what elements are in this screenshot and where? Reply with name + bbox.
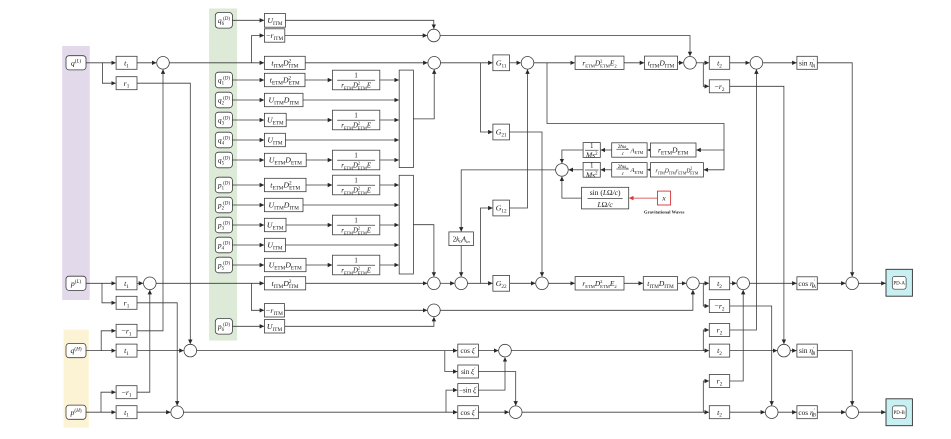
- block 1/Ms^2 row1: [583, 142, 600, 160]
- block G11: [493, 55, 510, 71]
- wire junction N2 to t_ITM D2_ITM lower: [156, 282, 264, 284]
- wire pL branch to -r_ITM lower: [251, 283, 263, 310]
- gain t1 (pH): [116, 406, 137, 419]
- block 1/Ms^2 row2: [583, 162, 600, 180]
- wire A_ETM to 1/Ms2 row2: [601, 169, 612, 171]
- wire q4 to stage box: [232, 139, 263, 141]
- svg-text:1: 1: [354, 152, 357, 159]
- wire q^(L) branch to r1: [102, 63, 115, 83]
- junction N8 (pL + 2k0Ain): [455, 277, 468, 290]
- input p^(H): [66, 405, 86, 419]
- block (2hw0/c)A_ETM row1: [612, 143, 647, 157]
- block sinc(LOmega/c): [582, 187, 629, 209]
- svg-text:Ms2: Ms2: [585, 171, 598, 180]
- input q2^(D): [215, 92, 232, 108]
- block 1/(r_ETM D2_ETM E) row y=225: [333, 215, 380, 235]
- wire junction N1 to t_ITM D2_ITM: [169, 62, 263, 64]
- wire -r2 top down to junction N19: [730, 86, 784, 343]
- wire t2 to junction N20: [730, 411, 765, 413]
- wire t2 to junction N17: [730, 62, 750, 64]
- input q5^(D): [215, 152, 232, 168]
- block U_ITM D_ITM (p2): [264, 198, 303, 211]
- wire r2(381) up to junction N18: [730, 290, 744, 381]
- wire junction N21 to PD-A: [859, 282, 886, 284]
- wire q1 to stage box: [232, 79, 263, 81]
- junction N22 (PD-B sum): [846, 406, 859, 419]
- wire fraction to collector row y=225: [380, 224, 399, 226]
- svg-text:1: 1: [354, 257, 357, 264]
- wire junction N9 to junction N16: [440, 290, 693, 310]
- wire branch to r2(381): [703, 381, 708, 412]
- wire branch to -r2 lower: [703, 283, 708, 306]
- svg-text:sin ξ′: sin ξ′: [461, 367, 476, 376]
- block 1/(r_ETM D2_ETM E) row y=80: [333, 70, 380, 90]
- wire G12 up to junction N10: [510, 70, 528, 208]
- gain r1 (qL): [116, 77, 137, 90]
- block t_ITM D_ITM (top): [645, 56, 678, 69]
- wire junction N7 to junction N8: [440, 282, 454, 284]
- svg-text:1: 1: [590, 142, 594, 150]
- svg-text:LΩ/c: LΩ/c: [597, 200, 614, 209]
- wire r1(pL) down to junction N4: [137, 303, 177, 406]
- wire p4 to stage box: [232, 244, 263, 246]
- input p2^(D): [215, 197, 232, 213]
- wire r1(qL) down to junction N3: [137, 83, 190, 344]
- input q^(L): [66, 56, 86, 70]
- junction N16 (cavity out lower): [687, 277, 700, 290]
- wire t2 to junction N18: [730, 282, 737, 284]
- wire branch to G21: [481, 63, 493, 132]
- input p6^(D): [215, 319, 232, 335]
- wire 1/Ms2 row2 to mech junction: [569, 169, 583, 171]
- wire -sin xi up to junction N13: [478, 358, 505, 391]
- wire -r1(qH) up to junction N1: [137, 70, 163, 331]
- wire branch to -r2 top: [703, 63, 708, 87]
- gain -r2 (lower): [709, 300, 729, 313]
- collector matrix block lower: [399, 175, 413, 274]
- wire stage box to fraction row y=160: [306, 159, 332, 161]
- input q3^(D): [215, 112, 232, 128]
- block -r_ITM (top): [264, 29, 284, 42]
- gain -r1 (pH): [116, 386, 137, 399]
- collector matrix block upper: [399, 70, 413, 168]
- block U_ITM (p6): [264, 320, 284, 333]
- input p4^(D): [215, 237, 232, 253]
- junction N11 (G22+G21): [536, 277, 549, 290]
- svg-text:Ms2: Ms2: [585, 151, 598, 160]
- junction N17 (t2+r2 top): [750, 57, 763, 70]
- gain t1 (qL): [116, 56, 137, 69]
- wire cos eta A to junction N21: [817, 282, 845, 284]
- wire p^(H) to t1: [86, 411, 116, 413]
- block cos xi (pH): [458, 406, 479, 419]
- svg-text:Gravitational Waves: Gravitational Waves: [644, 210, 685, 215]
- band detuned sidebands (green): [209, 9, 237, 341]
- wire t1 to junction N3: [137, 350, 183, 352]
- wire t1 to junction N4: [137, 411, 170, 413]
- junction N6 (qL + collector1): [428, 57, 441, 70]
- wire p5 to stage box: [232, 264, 263, 266]
- wire t_ITM D_ITM to junction N15: [678, 62, 684, 64]
- wire fraction to collector row y=160: [380, 159, 399, 161]
- wire junction N15 to t2: [696, 62, 708, 64]
- svg-text:PD-B: PD-B: [893, 411, 905, 416]
- wire junction N22 to PD-B: [859, 411, 886, 413]
- wire q3 to stage box: [232, 119, 263, 121]
- junction N1 (qL sum): [157, 57, 170, 70]
- gain r1 (pL): [116, 296, 137, 309]
- wire qL branch to mechanics row2: [547, 63, 724, 170]
- wire G11 to junction N10: [510, 62, 521, 64]
- wire junction N6 to G11: [441, 62, 493, 64]
- wire qL branch to -r_ITM: [252, 36, 264, 63]
- block G22: [493, 275, 510, 291]
- junction N21 (PD-A sum): [846, 277, 859, 290]
- wire 1/Ms2 row1 to mech junction top: [562, 150, 583, 163]
- wire junction N11 to E2 lower: [548, 282, 574, 284]
- wire t_ITM D_ITM lower to junction N16: [678, 282, 686, 284]
- wire junction N16 to t2: [699, 282, 709, 284]
- wire branch to sin xi: [445, 351, 457, 372]
- wire fraction to collector row y=265: [380, 264, 399, 266]
- block U_ETM D_ETM (q5): [264, 153, 306, 166]
- input q6^(D): [215, 13, 232, 29]
- block U_ITM D_ITM (q2): [264, 93, 303, 106]
- junction N15 (cavity out top): [684, 57, 697, 70]
- wire stage box to fraction row y=225: [286, 224, 332, 226]
- gain t1 (pL): [116, 277, 137, 290]
- wire p^(H) branch to -r1: [101, 392, 116, 412]
- input p3^(D): [215, 217, 232, 233]
- photodetector PD-B: [886, 399, 912, 426]
- wire p3 to stage box: [232, 224, 263, 226]
- wire stage box to fraction row y=80: [305, 79, 332, 81]
- wire t_ITM D2_ITM to junction N6: [305, 62, 427, 64]
- block t_ETM D2_ETM (p1): [264, 178, 306, 191]
- wire -r_ITM lower to junction N9: [285, 309, 428, 311]
- input q4^(D): [215, 132, 232, 148]
- photodetector PD-A: [886, 269, 912, 296]
- wire t2 to junction N19: [730, 350, 777, 352]
- wire fraction to collector row y=185: [380, 184, 399, 186]
- gain t2 (A cos row): [709, 277, 729, 290]
- junction N7 (pL + collector2): [428, 277, 441, 290]
- gain t1 (qH): [116, 344, 137, 357]
- wire stage box to fraction row y=185: [306, 184, 332, 186]
- wire sinc box to mech junction bottom: [562, 177, 582, 198]
- block cos eta_B: [797, 406, 817, 419]
- wire t1 to junction N1: [137, 62, 156, 64]
- junction N10 (G11+G12): [521, 57, 534, 70]
- junction N13 (xi rotation top): [499, 344, 512, 357]
- block 1/(r_ETM D2_ETM E) row y=265: [333, 255, 380, 275]
- wire collector1 out to junction N6: [413, 70, 434, 119]
- block 1/(r_ETM D2_ETM E) row y=120: [333, 110, 380, 130]
- block cos eta_A: [797, 277, 817, 290]
- block t_ITM D2_ITM (pL): [264, 277, 305, 290]
- wire junction A1 to junction N15: [440, 36, 690, 56]
- wire branch to -sin xi: [446, 390, 457, 412]
- wire q6 to U_ITM: [232, 19, 263, 21]
- block G21: [493, 124, 510, 140]
- block (2hw0/c)A_ETM row2: [612, 163, 647, 177]
- wire stage box to collector row y=100: [303, 99, 399, 101]
- wire q^(L) to t1: [84, 62, 115, 64]
- wire stage box to fraction row y=265: [306, 264, 332, 266]
- svg-text:cos ξ′: cos ξ′: [460, 408, 476, 417]
- wire G21 down to junction N11: [510, 132, 543, 276]
- svg-text:1: 1: [590, 162, 594, 170]
- wire junction N20 to cos eta B: [778, 411, 796, 413]
- wire U_ITM lower to junction N9: [285, 317, 434, 326]
- block sin xi: [458, 365, 479, 378]
- wire mech junction to 2k0Ain: [461, 170, 555, 231]
- wire collector2 out to junction N7: [413, 225, 434, 277]
- wire sin eta B down to junction N22: [817, 351, 852, 406]
- block U_ITM (p4): [264, 238, 285, 251]
- input q1^(D): [215, 72, 232, 88]
- block r_ETM D_ETM: [650, 143, 696, 157]
- block G12: [493, 200, 510, 216]
- wire branch to G12: [481, 208, 493, 283]
- wire r2(330) up to junction N17: [730, 70, 757, 330]
- wire t1 to junction N2: [137, 282, 143, 284]
- junction N18 (t2+r2 A row): [737, 277, 750, 290]
- block t_ETM D2_ETM (q1): [264, 73, 305, 86]
- svg-text:sin (LΩ/c): sin (LΩ/c): [590, 188, 621, 197]
- wire p2 to stage box: [232, 204, 263, 206]
- junction N3 (qH sum): [184, 344, 197, 357]
- wire stage box to fraction row y=120: [286, 119, 332, 121]
- svg-text:1: 1: [354, 177, 357, 184]
- wire stage box to collector row y=140: [285, 139, 398, 141]
- gain r2 (381): [709, 375, 729, 388]
- block r_ETM D2_ETM E2 (lower): [575, 277, 624, 290]
- wire E2 lower to t_ITM D_ITM lower: [624, 282, 643, 284]
- wire 2k0Ain to junction N8: [460, 246, 462, 277]
- wire q5 to stage box: [232, 159, 263, 161]
- gain -r2 (top): [709, 80, 729, 93]
- wire junction N13 to t2: [511, 350, 708, 352]
- wire junction N3 to cos xi: [197, 350, 458, 352]
- wire A_ETM to 1/Ms2 row1: [601, 149, 612, 151]
- wire cos xi to junction N13: [478, 350, 498, 352]
- wire branch to r2(330): [703, 330, 708, 351]
- wire fraction to collector row y=80: [380, 79, 399, 81]
- input p1^(D): [215, 177, 232, 193]
- block sin eta_A: [797, 56, 817, 69]
- block -r_ITM (lower): [264, 304, 284, 317]
- wire p1 to stage box: [232, 184, 263, 186]
- wire stage box to collector row y=245: [285, 244, 398, 246]
- wire junction N8 to G22: [468, 282, 493, 284]
- block -sin xi: [458, 384, 479, 397]
- wire -r1(pH) up to junction N2: [137, 290, 150, 392]
- block r_ITM D_ITM r_ETM D2_ETM: [650, 163, 703, 177]
- input p5^(D): [215, 257, 232, 273]
- junction N9 (-r_ITM lower sum): [428, 304, 441, 317]
- wire p^(L) branch to r1: [102, 283, 116, 303]
- wire cos eta B to junction N22: [817, 411, 845, 413]
- band laser input (purple): [62, 46, 89, 300]
- svg-text:1: 1: [354, 217, 357, 224]
- svg-text:−sin ξ′: −sin ξ′: [459, 386, 478, 395]
- wire -r_ITM to junction A1: [285, 35, 427, 37]
- junction N2 (pL sum): [144, 277, 157, 290]
- block 1/(r_ETM D2_ETM E) row y=185: [333, 175, 380, 195]
- svg-text:PD-A: PD-A: [893, 282, 905, 287]
- wire q^(H) to t1: [86, 350, 116, 352]
- wire q2 to stage box: [232, 99, 263, 101]
- wire junction N4 to cos xi lower: [184, 411, 458, 413]
- junction N4 (pH sum): [171, 406, 184, 419]
- wire junction N19 to sin eta B: [790, 350, 796, 352]
- band homodyne input (yellow): [64, 330, 89, 428]
- wire sin eta A down to junction N21: [817, 63, 852, 277]
- wire junction N10 to r_ETM D2_ETM E2: [534, 62, 575, 64]
- gain t2 (B cos row): [709, 406, 729, 419]
- junction A1 (-r_ITM row sum): [428, 29, 441, 42]
- block U_ETM (p3): [264, 218, 286, 231]
- wire U_ITM to junction A1: [285, 20, 433, 28]
- svg-text:1: 1: [354, 72, 357, 79]
- wire junction N14 to t2: [522, 411, 709, 413]
- wire row2 box to A_ETM row2: [648, 169, 651, 171]
- block t_ITM D2_ITM (qL): [264, 56, 305, 69]
- wire q^(H) branch to -r1: [101, 331, 115, 351]
- wire p^(L) to t1: [86, 282, 116, 284]
- wire r_ETM D_ETM to A_ETM row1: [648, 149, 651, 151]
- wire junction N18 to cos eta A: [750, 282, 797, 284]
- input p^(L): [66, 276, 86, 290]
- wire stage box to collector row y=205: [303, 204, 399, 206]
- svg-text:cos ξ′: cos ξ′: [460, 346, 476, 355]
- gain r2 (330): [709, 324, 729, 337]
- block r_ETM D2_ETM E2 (top): [575, 56, 624, 69]
- wire cos xi lower to junction N14: [478, 411, 508, 413]
- junction N12 (mechanical force sum): [556, 164, 569, 177]
- block 1/(r_ETM D2_ETM E) row y=160: [333, 150, 380, 170]
- svg-text:x: x: [661, 194, 666, 203]
- block U_ITM (q4): [264, 133, 285, 146]
- input q^(H): [66, 344, 86, 358]
- wire fraction to collector row y=120: [380, 119, 399, 121]
- wire E2 to t_ITM D_ITM: [624, 62, 644, 64]
- junction N20 (t2-r2 B cos row): [765, 406, 778, 419]
- block 2k0 A_in: [449, 232, 474, 246]
- block U_ETM D_ETM (p5): [264, 258, 306, 271]
- block t_ITM D_ITM (lower): [643, 277, 677, 290]
- wire mechanics feed branch row1: [697, 149, 724, 151]
- gain -r1 (qH): [116, 324, 137, 337]
- junction N14 (xi rotation bottom): [509, 406, 522, 419]
- block U_ETM (q3): [264, 113, 286, 126]
- svg-text:1: 1: [354, 112, 357, 119]
- wire gravitational wave x to sinc box: [629, 197, 657, 199]
- block sin eta_B: [797, 344, 817, 357]
- wire p6 to U_ITM lower: [233, 325, 264, 327]
- junction N19 (t2-r2 B sin row): [778, 344, 791, 357]
- block U_ITM (q6): [264, 14, 285, 28]
- wire sin xi down to junction N14: [478, 372, 515, 406]
- gain t2 (B sin row): [709, 344, 729, 357]
- block cos xi (qH): [458, 344, 479, 357]
- gravitational wave input x: [658, 191, 671, 205]
- wire junction N17 to sin eta A: [763, 62, 797, 64]
- wire t_ITM D2_ITM lower to junction N7: [306, 282, 427, 284]
- wire G22 to junction N11: [510, 282, 535, 284]
- gain t2 (A sin row): [709, 56, 729, 69]
- wire -r2 lower down to junction N20: [730, 306, 772, 405]
